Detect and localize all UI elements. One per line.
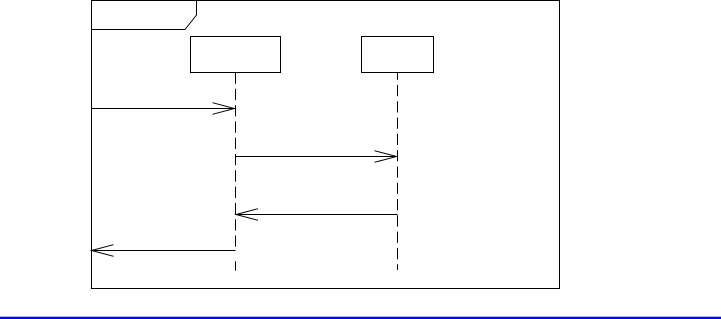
- lifeline head box 1: [191, 37, 281, 73]
- lifeline 2 (dashed): [397, 73, 399, 271]
- message arrow 1 (frame edge to lifeline 1): [92, 103, 235, 115]
- frame border (sd interaction frame): [92, 1, 560, 289]
- message arrow 3 (lifeline 2 to lifeline 1): [236, 209, 398, 221]
- lifeline head box 2: [362, 37, 434, 73]
- message arrow 2 (lifeline 1 to lifeline 2): [236, 151, 397, 163]
- blue horizontal rule at page bottom: [0, 317, 721, 319]
- lifeline 1 tail dash below return message: [235, 261, 237, 270]
- lifeline 1 (dashed): [235, 73, 237, 251]
- frame name pentagon label: [92, 1, 197, 30]
- message arrow 4 (lifeline 1 to frame edge): [92, 245, 236, 257]
